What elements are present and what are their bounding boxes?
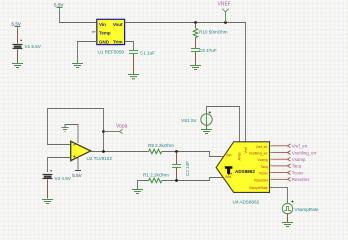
svg-text:VREF: VREF (218, 2, 231, 8)
wire U1 GND to ground (78, 42, 97, 64)
wire V1 bottom lead (17, 50, 19, 64)
svg-text:R1 2.2kOhm: R1 2.2kOhm (143, 172, 169, 177)
svg-text:Temp: Temp (99, 30, 111, 35)
wire V1 top lead (17, 30, 19, 44)
junction dot (R10 branch) (194, 21, 197, 24)
ground (V1) (12, 64, 23, 68)
wire R1 to INM (162, 178, 220, 181)
node 5.5V terminal (V1 top) (15, 27, 21, 30)
svg-text:V3 4.5V: V3 4.5V (55, 176, 72, 181)
ground (VS1) (201, 130, 212, 134)
svg-text:Vout: Vout (113, 22, 123, 27)
svg-text:Trim: Trim (113, 39, 123, 44)
svg-text:C1 1uF: C1 1uF (140, 51, 155, 56)
svg-text:5.5V: 5.5V (12, 21, 22, 26)
pin stub Temp (unconnected) (93, 31, 97, 33)
junction dot (C2 top) (175, 150, 178, 153)
wire V3 to ground (47, 180, 49, 199)
svg-text:AVdd: AVdd (238, 152, 242, 160)
wire output up to feedback (103, 132, 105, 152)
svg-text:Vref: Vref (244, 147, 248, 153)
wire C1 to ground (133, 54, 135, 74)
wire op-amp bottom power to 5.5V (77, 158, 79, 171)
wire 5.5V to U1 Vin (60, 11, 97, 23)
svg-text:C6 47uF: C6 47uF (199, 48, 217, 53)
node 5.5V terminal (U1 Vin) (57, 8, 63, 11)
wire SampleRate to VsampRate (270, 187, 287, 203)
wire U1 Trim to C1 (125, 42, 134, 51)
capacitor C6 (191, 49, 200, 52)
svg-text:Tconv: Tconv (292, 170, 304, 175)
svg-text:R9 2.2kOhm: R9 2.2kOhm (148, 143, 174, 148)
junction dot (VREF tap) (224, 21, 227, 24)
wire +input to V3 (48, 158, 71, 173)
wire rail to R10 (195, 23, 197, 29)
wire feedback loop (48, 109, 104, 145)
pin Tacq (270, 164, 290, 168)
svg-text:U2 TLV9102: U2 TLV9102 (87, 156, 113, 161)
svg-text:Vsettling_err: Vsettling_err (292, 150, 317, 155)
node Vopa jumper (104, 131, 120, 133)
svg-text:Tacq: Tacq (292, 164, 302, 169)
wire R10 to C6 (195, 38, 197, 49)
svg-text:INM: INM (225, 175, 231, 179)
wire VS1 to ground (206, 125, 208, 129)
ground (V3) (42, 200, 53, 204)
svg-text:U1 REF5050: U1 REF5050 (98, 49, 125, 54)
battery V1 (13, 40, 23, 49)
voltage reference U1 REF5050 (97, 19, 125, 44)
pin ResetSH (270, 177, 290, 181)
svg-text:Tconv: Tconv (259, 172, 268, 176)
svg-text:Vref_err: Vref_err (256, 145, 269, 149)
TI logo (225, 166, 233, 174)
resistor R9 (149, 149, 162, 153)
svg-text:ResetSH: ResetSH (254, 178, 268, 182)
battery V3 (43, 170, 53, 179)
ADC U4 ADS8862 (216, 142, 269, 193)
ground (C6) (190, 66, 201, 70)
wire ground to R1 (138, 181, 149, 190)
wire VsampRate to ground (287, 214, 289, 222)
svg-text:5.5V: 5.5V (72, 173, 82, 178)
svg-text:Vsamp: Vsamp (257, 158, 268, 162)
ground (VsampRate) (282, 223, 293, 227)
wire ground to op-amp top power (65, 125, 78, 144)
pin Vsettling_err (270, 151, 290, 155)
svg-text:INP: INP (226, 154, 232, 158)
svg-text:5.5V: 5.5V (54, 2, 64, 7)
resistor R10 (193, 29, 197, 38)
svg-text:U4 ADS8862: U4 ADS8862 (233, 200, 260, 205)
svg-text:R10 50mOhm: R10 50mOhm (199, 30, 228, 35)
pin Vref_err (270, 144, 290, 148)
svg-text:Vref_err: Vref_err (292, 144, 308, 149)
wire op-amp output (91, 151, 149, 153)
svg-text:Vopa: Vopa (116, 123, 128, 129)
source VsampRate (282, 200, 293, 213)
svg-text:Vin: Vin (99, 22, 106, 27)
voltage source VS1 (201, 111, 212, 125)
svg-text:GND: GND (99, 39, 110, 44)
wire R9 to INP (162, 152, 221, 157)
svg-text:Tacq: Tacq (261, 165, 268, 169)
svg-text:Vsamp: Vsamp (292, 157, 306, 162)
wire VS1 to AVdd (207, 107, 240, 142)
wire Vout rail (125, 23, 246, 142)
svg-text:VS1 5V: VS1 5V (181, 118, 198, 123)
svg-text:Vsettling_err: Vsettling_err (249, 152, 269, 156)
node VREF jumper (222, 9, 228, 23)
svg-text:VsampRate: VsampRate (295, 207, 319, 212)
node 5.5V terminal (op-amp supply) (75, 170, 81, 172)
svg-text:V1 5.5V: V1 5.5V (25, 44, 42, 49)
ground (C1) (128, 75, 139, 79)
pin Tconv (270, 171, 290, 175)
capacitor C1 (129, 51, 138, 54)
svg-text:SampleRate: SampleRate (249, 186, 268, 190)
op-amp U2 TLV9102 (71, 141, 91, 160)
pin Vsamp (270, 157, 290, 161)
ground (op-amp V+) (62, 128, 69, 132)
junction dot (C2 bottom) (175, 179, 178, 182)
wire C6 to ground (195, 52, 197, 66)
ground (R1) (132, 190, 143, 194)
svg-text:ResetSH: ResetSH (292, 177, 310, 182)
junction dot (Vopa tap) (102, 130, 105, 133)
svg-text:ADS8862: ADS8862 (235, 169, 255, 174)
capacitor C2 (172, 165, 181, 168)
junction dot (output) (102, 150, 105, 153)
resistor R1 (149, 178, 162, 182)
ground (U1 GND) (72, 64, 83, 68)
svg-text:C2 1nF: C2 1nF (185, 161, 190, 176)
